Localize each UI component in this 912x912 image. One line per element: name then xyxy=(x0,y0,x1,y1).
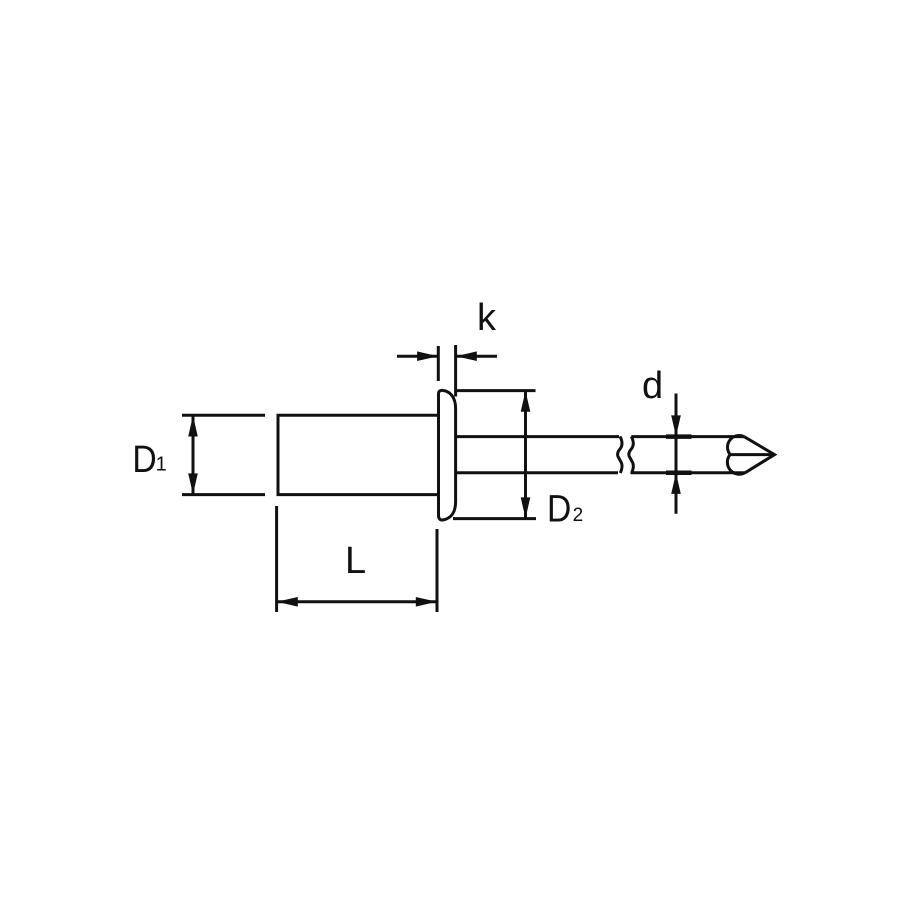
mandrel tip lower lobe arc xyxy=(727,455,745,475)
mandrel bottom line right of break xyxy=(631,471,746,474)
k extension line left xyxy=(437,346,440,381)
svg-text:D: D xyxy=(547,489,571,531)
D1 arrowhead down xyxy=(188,473,198,494)
D1 arrowhead up xyxy=(188,416,198,437)
k arrowhead right xyxy=(417,351,438,361)
L arrowhead right xyxy=(416,597,437,607)
D1 dimension line xyxy=(192,416,195,494)
svg-text:1: 1 xyxy=(156,454,167,476)
k extension line right xyxy=(454,345,457,397)
break wavy line left xyxy=(618,436,622,473)
k arrowhead left xyxy=(456,351,477,361)
L dimension line xyxy=(277,600,437,603)
d dimension line xyxy=(675,394,678,514)
svg-text:2: 2 xyxy=(573,505,584,526)
k dimension line left part xyxy=(397,355,438,358)
mandrel top line right of break xyxy=(631,435,744,438)
D2 dimension line xyxy=(524,391,527,518)
D2 extension line bottom xyxy=(453,517,536,520)
mandrel top line left of break xyxy=(456,435,619,438)
d arrowhead up xyxy=(671,473,681,494)
D1 extension line bottom xyxy=(182,493,265,496)
D2 extension line top xyxy=(456,389,536,392)
svg-text:L: L xyxy=(345,540,366,582)
svg-text:D: D xyxy=(132,439,156,481)
L extension line left xyxy=(275,506,278,612)
rivet head flange xyxy=(439,390,456,520)
d tick mark bottom xyxy=(666,471,692,476)
L arrowhead left xyxy=(277,597,298,607)
D1 extension line top xyxy=(182,414,265,417)
svg-text:k: k xyxy=(477,297,497,339)
L extension line right xyxy=(436,529,439,612)
k dimension line right part xyxy=(456,355,497,358)
mandrel tip upper lobe arc xyxy=(728,436,744,455)
svg-text:d: d xyxy=(642,365,663,407)
mandrel tip center line xyxy=(730,453,775,456)
D2 arrowhead up xyxy=(521,391,531,412)
break wavy line right xyxy=(629,436,633,473)
mandrel bottom line left of break xyxy=(456,471,618,474)
mandrel pointed tip outline xyxy=(744,437,775,473)
rivet body (sleeve) xyxy=(278,415,439,494)
d arrowhead down xyxy=(671,415,681,436)
D2 arrowhead down xyxy=(521,497,531,518)
d tick mark top xyxy=(666,434,692,439)
